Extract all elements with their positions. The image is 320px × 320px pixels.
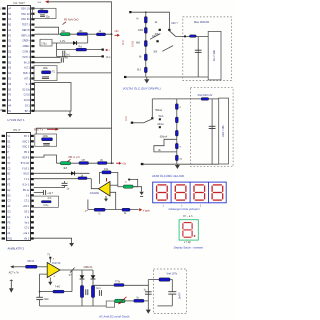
svg-text:CH: CH [82, 159, 86, 162]
resistor shunt 5 [175, 155, 178, 160]
svg-text:+5v: +5v [114, 29, 119, 33]
svg-text:VOLTAJ ÖLÇ (DUY DRV/PİL): VOLTAJ ÖLÇ (DUY DRV/PİL) [123, 86, 161, 91]
svg-text:V in: V in [124, 116, 128, 121]
IC1 pin 5 pad [2, 29, 5, 31]
svg-text:CREF+: CREF+ [22, 41, 30, 43]
wire U2 out [91, 179, 98, 189]
svg-text:4 %: 4 % [48, 198, 52, 200]
switch arm I [144, 119, 152, 123]
capacitor 0.1uF ref [61, 57, 63, 62]
wire feedback [100, 172, 103, 183]
resistor 1k ldr [134, 297, 144, 303]
IC2 pin 21 pad [31, 237, 34, 239]
IC1 pin 8 pad [2, 45, 5, 47]
wire 1k to vert [144, 300, 148, 302]
display separator 3 [208, 182, 210, 203]
svg-text:G0 1: G0 1 [24, 212, 30, 214]
pad box1 edge [184, 36, 186, 38]
IC1 pin 35 pad [31, 34, 34, 36]
svg-text:Vref 10?v: Vref 10?v [167, 273, 178, 276]
dashed box voltage [183, 17, 232, 81]
IC2 pin 18 pad [2, 227, 5, 229]
wire box3 vert b [171, 294, 173, 306]
wire NTC rail [57, 162, 115, 164]
capacitor box2 [209, 126, 216, 128]
svg-text:CA3130: CA3130 [90, 192, 100, 195]
wire int out [57, 72, 112, 74]
IC2 pin 3 pad [2, 146, 5, 148]
svg-text:4k5: 4k5 [63, 167, 68, 170]
wire into box1 [176, 36, 208, 38]
wire stub 2m [57, 49, 104, 51]
wire box1 inner vert [197, 37, 199, 77]
resistor shunt 3 [175, 130, 178, 136]
IC1 pin 20 pad [2, 110, 5, 112]
svg-text:G: G [99, 213, 101, 216]
wire stub link [56, 43, 58, 57]
IC2 pin 24 pad [31, 221, 34, 223]
wire U2 input a [110, 184, 118, 186]
svg-text:A-Z 1: A-Z 1 [24, 67, 30, 70]
IC1 pin 39 pad [31, 13, 34, 15]
U1 supply dot [49, 257, 51, 259]
junction NTC rail [111, 162, 113, 164]
box integrator [34, 66, 57, 81]
svg-text:REF LO: REF LO [21, 35, 30, 37]
wire box3 bottom [157, 305, 172, 307]
svg-text:C3 1: C3 1 [24, 201, 30, 203]
wire det out [93, 284, 114, 286]
LDR arrow red [118, 297, 127, 305]
IC2 pin 25 pad [31, 216, 34, 218]
wire divider chain [145, 12, 147, 77]
svg-text:LYC33 4V/r 1: LYC33 4V/r 1 [8, 118, 26, 122]
svg-text:A3 10: A3 10 [24, 99, 31, 102]
svg-text:7.2 1: 7.2 1 [24, 179, 30, 181]
svg-text:CREF-: CREF- [23, 46, 30, 48]
wire det out b [124, 284, 148, 286]
IC2 pin 38 pad [31, 146, 34, 148]
+5v arrow right 2 [116, 162, 121, 165]
svg-text:C#n ?: C#n ? [171, 22, 178, 25]
IC2 pin 10 pad [2, 183, 5, 185]
IC2 pin 15 pad [2, 210, 5, 212]
box ref source [40, 39, 52, 46]
IC2 pin 37 pad [31, 151, 34, 153]
svg-text:RDF 8: RDF 8 [22, 158, 29, 160]
op IC2 body ICL7107 [7, 133, 31, 241]
wire AC in [13, 266, 25, 268]
resistor AD net [41, 201, 51, 203]
wire box3 vert [170, 280, 172, 292]
cap diag tick [70, 268, 75, 273]
svg-text:F LR 1: F LR 1 [22, 168, 30, 170]
svg-text:+0a 1: +0a 1 [23, 233, 30, 235]
wire 1k row [34, 178, 92, 180]
svg-text:8.2+ 1: 8.2+ 1 [23, 185, 30, 187]
box RC oscillator [33, 8, 56, 18]
wire D2 drop [92, 270, 94, 275]
svg-text:PO1: PO1 [7, 239, 12, 241]
IC2 pin 36 pad [31, 156, 34, 158]
IC2 pin 31 pad [31, 183, 34, 185]
wire loop box [35, 83, 72, 112]
svg-text:OSV 1/1: OSV 1/1 [21, 8, 31, 10]
svg-text:REF HI: REF HI [22, 30, 30, 32]
capacitor stub [63, 51, 65, 58]
svg-text:W1 D: W1 D [23, 174, 29, 176]
wire shunt chain [176, 99, 178, 164]
wire 220n down [39, 300, 41, 306]
wire stub 0m [57, 56, 104, 58]
switch deck diag 1 [150, 34, 160, 40]
dashed box ref [153, 269, 186, 314]
svg-text:22p: 22p [46, 16, 51, 19]
AC gnd arrow [9, 288, 14, 293]
display digit 1 [157, 185, 168, 200]
wire Ra down [81, 298, 83, 307]
arrow pin21 [69, 243, 74, 247]
wire pin3 bend [35, 27, 59, 34]
U2 V- arrow [104, 196, 108, 202]
module REX rect [208, 31, 221, 80]
wire zener row [52, 42, 88, 44]
wire osc pin a [33, 7, 35, 9]
resistor 1M input [26, 265, 38, 268]
IC2 pin 22 pad [31, 232, 34, 234]
svg-text:Ru 7-30k: Ru 7-30k [212, 49, 216, 61]
svg-text:0u47F: 0u47F [179, 292, 182, 299]
IC2 pin 4 pad [2, 151, 5, 153]
svg-text:IN HI 1: IN HI 1 [23, 57, 31, 59]
IC2 pin 9 pad [2, 178, 5, 180]
svg-text:600mA: 600mA [160, 135, 168, 138]
IC1 pin 29 pad [31, 67, 34, 69]
IC2 pin 7 pad [2, 167, 5, 169]
IC1 pin 34 pad [31, 40, 34, 42]
IC1 pin 30 pad [31, 61, 34, 63]
annotation arrow [63, 22, 67, 25]
display separator 1 [170, 182, 172, 203]
resistor Vb [98, 159, 107, 165]
IC1 pin 33 pad [31, 45, 34, 47]
IC2 pin 34 pad [31, 167, 34, 169]
contact dot v2 [159, 29, 161, 31]
resistor chain 5 [144, 67, 147, 72]
resistor shunt 4 [175, 143, 178, 148]
svg-text:100k: 100k [43, 135, 49, 138]
svg-text:+D2 1: +D2 1 [23, 206, 30, 208]
svg-text:TV: TV [47, 255, 50, 257]
svg-text:220n: 220n [44, 298, 50, 301]
svg-text:+2k ?: +2k ? [47, 192, 54, 195]
wire shunt contact [151, 99, 153, 117]
svg-text:BYC 1D: BYC 1D [21, 163, 30, 165]
IC1 pin 37 pad [31, 23, 34, 25]
svg-text:100k: 100k [43, 67, 49, 70]
svg-text:OSC 2: OSC 2 [22, 141, 30, 143]
IC1 pin 14 pad [2, 77, 5, 79]
svg-text:175u: 175u [41, 42, 47, 45]
IC1 pin 9 pad [2, 50, 5, 52]
wire cap ref a [35, 56, 61, 58]
resistor Rb vert [91, 286, 94, 298]
svg-text:590uA: 590uA [155, 109, 162, 112]
IC2 pin 27 pad [31, 205, 34, 207]
IC2 pin 19 pad [2, 232, 5, 234]
wire trimmer gnd [133, 187, 142, 192]
svg-text:BUF 1: BUF 1 [23, 73, 30, 75]
contact dot v3 [156, 40, 158, 42]
box AD net [31, 196, 58, 207]
IC2 pin 17 pad [2, 221, 5, 223]
IC2 pin 33 pad [31, 173, 34, 175]
wire box2 inner vert [211, 99, 213, 164]
wire out rail up [87, 200, 89, 210]
IC2 pin 5 pad [2, 156, 5, 158]
wire 2k step [154, 139, 177, 152]
resistor 1k out [122, 208, 130, 215]
capacitor 22pF osc [40, 15, 45, 17]
contact dot c2 [159, 126, 161, 128]
resistor chain 3 [144, 41, 147, 47]
box RC osc IC2 [35, 134, 57, 146]
wire zener to rail [87, 35, 89, 43]
capacitor 1uF det [145, 292, 152, 294]
svg-text:s ? d/p: s ? d/p [184, 242, 192, 244]
diode 1N4148 [73, 41, 77, 45]
wire box2 bottom [142, 163, 219, 165]
svg-text:1**: 1** [85, 210, 88, 213]
resistor CH [79, 159, 89, 165]
ground box2 [175, 164, 180, 169]
wire cap 1u stem [64, 181, 66, 183]
svg-text:G3 1: G3 1 [25, 105, 31, 107]
svg-text:G2 10s: G2 10s [22, 89, 30, 91]
svg-text:TL071C: TL071C [52, 262, 61, 265]
wire cap 1u row [34, 186, 65, 188]
ground trimmer bar [140, 196, 143, 198]
IC1 pin 18 pad [2, 99, 5, 101]
U2 pin7 red tick [106, 178, 108, 182]
svg-text:AC? s ?n: AC? s ?n [9, 272, 20, 275]
ground trimmer [139, 191, 143, 195]
svg-text:AN/BLKTR 2: AN/BLKTR 2 [8, 246, 25, 250]
contact dot v1 [168, 29, 170, 31]
svg-text:Max 300mW: Max 300mW [194, 20, 210, 24]
svg-text:BP 1: BP 1 [25, 111, 31, 113]
resistor 1k [97, 30, 106, 36]
svg-text:IN LO: IN LO [24, 62, 30, 64]
display module frame [153, 182, 227, 203]
wire Db down [92, 280, 94, 286]
svg-text:Display Sayısı - onwassi: Display Sayısı - onwassi [174, 245, 204, 249]
wire LDR row [114, 300, 116, 302]
IC1 pin 25 pad [31, 88, 34, 90]
IC1 pin 22 pad [31, 104, 34, 106]
resistor box3 [159, 278, 170, 281]
red arrow Vout [139, 208, 142, 211]
wire +5V vertical drop [111, 34, 113, 163]
AC gnd tick [10, 280, 13, 282]
wire trimmer bracket [130, 179, 138, 186]
wire cap row 2 [34, 192, 43, 194]
svg-text:V (V): V (V) [131, 41, 135, 47]
wire I pole [132, 122, 144, 124]
IC1 pin 28 pad [31, 72, 34, 74]
IC2 pin 30 pad [31, 189, 34, 191]
IC1 pin 32 pad [31, 50, 34, 52]
wire pin21 out [34, 238, 72, 242]
svg-text:BV 1s: BV 1s [23, 190, 30, 192]
svg-text:9a 1: 9a 1 [25, 222, 30, 224]
IC2 pin 6 pad [2, 162, 5, 164]
resistor 1k row [78, 174, 87, 179]
IC2 pin 23 pad [31, 227, 34, 229]
IC2 pin 35 pad [31, 162, 34, 164]
ground box1 [144, 77, 149, 83]
svg-text:(3 w: (3 w [106, 56, 111, 59]
svg-text:TEST 1: TEST 1 [22, 25, 31, 27]
svg-text:8k6: 8k6 [136, 42, 141, 45]
resistor Ra vert [80, 286, 83, 298]
diode D2 [71, 171, 75, 175]
svg-text:Vr: Vr [136, 17, 139, 20]
wire cap ref b [35, 62, 61, 64]
IC1 pin 21 pad [31, 110, 34, 112]
IC1 pin 3 pad [2, 18, 5, 20]
svg-text:0.Oe: 0.Oe [44, 205, 50, 207]
capacitor int [42, 77, 49, 79]
wire U2 input b [110, 192, 116, 209]
svg-text:MC?A: MC?A [28, 260, 35, 263]
resistor chain 4 [144, 54, 147, 61]
IC1 pin 27 pad [31, 77, 34, 79]
IC1 pin 11 pad [2, 61, 5, 63]
wire det vert [147, 280, 149, 310]
svg-text:C3 10: C3 10 [24, 95, 31, 97]
svg-text:C3 1: C3 1 [24, 228, 30, 230]
resistor Rd [76, 46, 87, 51]
trimmer green [123, 185, 133, 188]
wire U1 supply [49, 259, 51, 263]
pad jack 2m [102, 49, 104, 51]
svg-text:OSC 2: OSC 2 [22, 147, 30, 149]
IC2 pin 28 pad [31, 200, 34, 202]
svg-text:7-#G: 7-#G [55, 286, 60, 289]
svg-text:OSC 3C: OSC 3C [21, 19, 30, 21]
display digit 4 [212, 185, 223, 200]
pad box2 bottom left [141, 163, 144, 165]
svg-text:???k: ???k [115, 280, 121, 283]
wire Vin top [132, 12, 170, 29]
IC1 pin 26 pad [31, 83, 34, 85]
svg-text:V- 1: V- 1 [26, 84, 31, 86]
AC in arrow [10, 265, 13, 268]
IC2 pin 16 pad [2, 216, 5, 218]
IC2 pin 32 pad [31, 178, 34, 180]
IC2 pin 12 pad [2, 194, 5, 196]
IC1 pin 13 pad [2, 72, 5, 74]
single digit dp [194, 235, 196, 237]
AC gnd stub [10, 280, 12, 289]
IC1 pin 4 pad [2, 23, 5, 25]
IC1 pin 24 pad [31, 94, 34, 96]
svg-text:INT 1: INT 1 [24, 78, 30, 80]
LDR green [115, 299, 125, 302]
IC1 pin 23 pad [31, 99, 34, 101]
capacitor box1 [195, 50, 202, 52]
svg-text:AD1 / 1Bv: AD1 / 1Bv [221, 124, 225, 136]
dashed box current [190, 88, 233, 167]
resistor 15k [77, 30, 88, 36]
pad Vin top [129, 11, 131, 13]
IC2 pin 11 pad [2, 189, 5, 191]
svg-text:R0 NvN OsO: R0 NvN OsO [64, 19, 79, 22]
op IC1 body ICL7107 [8, 6, 31, 114]
svg-text:BY 2: BY 2 [24, 136, 30, 138]
IC1 pin 16 pad [2, 88, 5, 90]
red arrow note [47, 128, 59, 131]
box relay out [106, 301, 114, 307]
pad jack 0m [102, 55, 104, 57]
IC2 pin 13 pad [2, 200, 5, 202]
svg-text:8 f – a h: 8 f – a h [183, 215, 193, 218]
capacitor 2k2 [43, 190, 45, 195]
svg-text:6mA: 6mA [159, 115, 164, 118]
display separator 2 [189, 182, 191, 203]
IC2 pin 8 pad [2, 173, 5, 175]
switch arm V [169, 31, 175, 37]
IC1 pin 10 pad [2, 56, 5, 58]
svg-text:PN 2: PN 2 [24, 152, 30, 154]
contact dot c0 [151, 117, 153, 119]
resistor green 9k1 [61, 30, 71, 36]
IC2 pin 26 pad [31, 210, 34, 212]
IC1 pin 38 pad [31, 18, 34, 20]
single digit frame [179, 220, 198, 240]
svg-text:OSC 2C: OSC 2C [21, 14, 30, 16]
wire Da down [81, 280, 83, 286]
svg-text:1k-1: 1k-1 [96, 288, 101, 290]
+5v arrow right [115, 34, 120, 37]
IC1 pin 17 pad [2, 94, 5, 96]
IC1 pin 6 pad [2, 34, 5, 36]
+5V arrow left [45, 0, 49, 3]
IC1 pin 31 pad [31, 56, 34, 58]
wire R to U1 [37, 266, 47, 268]
wire LDR to 1k [125, 300, 134, 302]
svg-text:180k: 180k [138, 29, 144, 32]
wire diode row [34, 172, 90, 174]
wire shunt top [152, 98, 218, 100]
svg-text:2xBC1'k: 2xBC1'k [84, 266, 94, 269]
wire box1 bottom [125, 76, 208, 78]
svg-text:60mA: 60mA [158, 123, 165, 126]
display digit 3 [194, 185, 205, 200]
wire out rail [88, 209, 139, 211]
svg-text:ICL 7107: ICL 7107 [14, 1, 26, 5]
switch deck diag 2 [162, 46, 173, 52]
IC1 pin 12 pad [2, 67, 5, 69]
svg-text:COM 1: COM 1 [22, 52, 30, 54]
wire out down [71, 270, 73, 292]
IC2 pin 29 pad [31, 194, 34, 196]
resistor 100k osc [38, 8, 48, 13]
pad box1 bottom left [124, 76, 126, 78]
op-amp U1 body [47, 263, 60, 278]
resistor 100k det [114, 284, 124, 287]
